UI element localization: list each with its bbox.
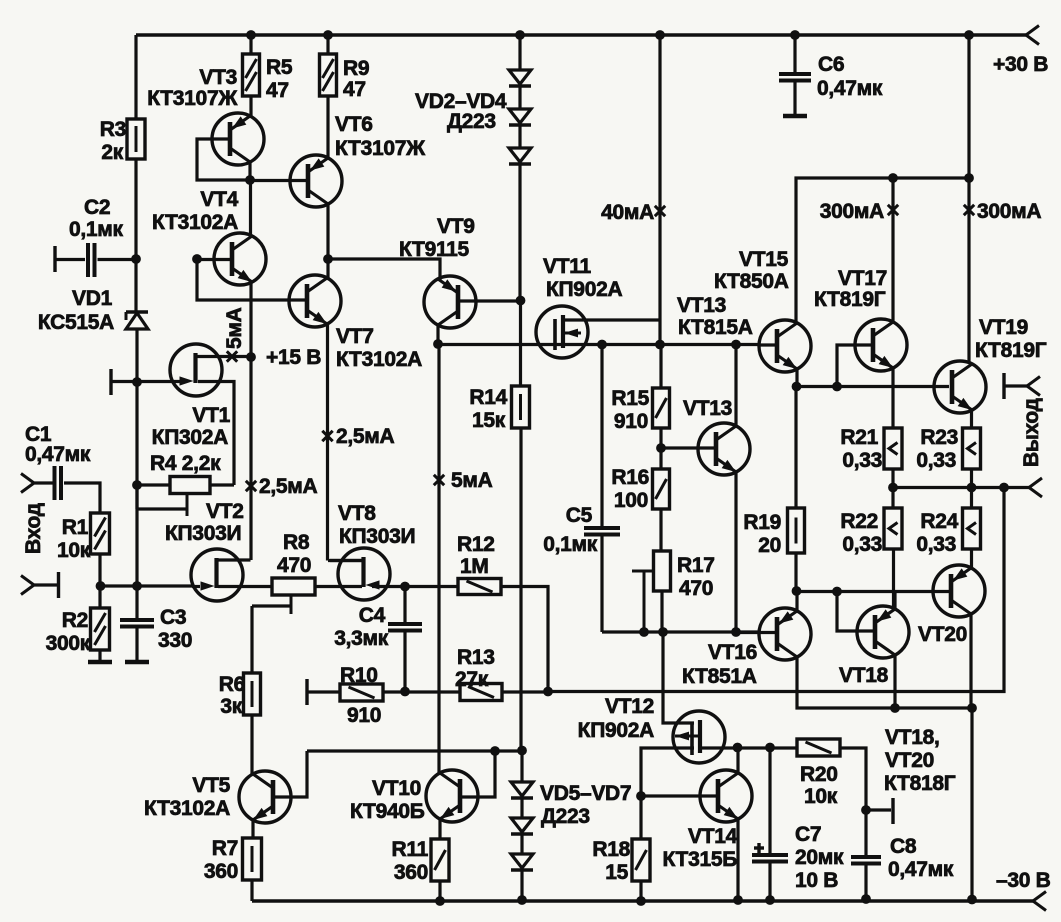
wire VT14 bias corner [641,748,694,796]
svg-text:15к: 15к [472,409,506,432]
wire VT2 source to R8 [218,585,272,588]
junction collectors line / right rail [964,173,974,183]
svg-text:КП902А: КП902А [546,278,622,301]
svg-text:20: 20 [758,534,781,557]
wire VT3 base loop to collector [197,139,250,180]
wire R4 right lead [210,483,234,486]
svg-text:VT8: VT8 [338,502,376,525]
svg-text:VT4: VT4 [200,188,238,211]
wire R6 to VT5 collector [250,715,253,774]
svg-text:300мА: 300мА [977,200,1041,223]
svg-text:VT5: VT5 [192,774,230,797]
diode chain VD2-VD4 wire [518,35,521,70]
junction VD1 / VT1 gate [132,377,142,387]
transistor VT12 (MOSFET) [673,711,725,763]
svg-text:VT13: VT13 [683,397,732,420]
wire VT2 gate segment [192,585,200,588]
svg-text:VT17: VT17 [838,267,887,290]
wire VT8 gate to C4 node [372,585,405,588]
wire VT3 collector node down to VT4 collector [249,180,252,236]
wire VT15 base from line [760,343,777,346]
wire 40mA rail [658,35,661,344]
diode VD2 [509,70,531,84]
capacitor C5 [600,344,603,528]
wire emitter line bottom [796,590,949,593]
ground bar under R2 [88,660,112,665]
junction top bus / +rail right [964,30,974,40]
wire VT17 collector rail [891,178,894,322]
svg-text:3к: 3к [220,695,242,718]
svg-text:КТ315Б: КТ315Б [663,848,738,871]
wire VT1 drain line [197,355,251,358]
svg-text:КТ3107Ж: КТ3107Ж [147,87,238,110]
resistor R20 [797,739,840,756]
resistor R11 [431,839,449,881]
wire VT18 emitter up [893,591,896,609]
resistor R19 [794,386,797,508]
wire VT16 emitter [795,591,798,611]
svg-text:КТ3107Ж: КТ3107Ж [335,137,426,160]
svg-text:R2: R2 [62,609,88,632]
transistor VT3 [212,113,264,165]
svg-text:R4 2,2к: R4 2,2к [150,452,221,475]
current marker 40мА [655,206,665,216]
svg-text:R11: R11 [392,838,429,861]
svg-text:VT6: VT6 [335,113,373,136]
junction VT16 emitter / R19 [792,586,802,596]
wire VT16 collector to bottom rail [797,657,972,708]
svg-text:КТ818Г: КТ818Г [884,772,956,795]
wire C1 to R1 [64,483,100,513]
transistor VT4 [214,233,266,285]
wire bottom -30V bus [252,899,1033,902]
transistor VT14 [700,770,752,822]
wire VT13 emitter down [734,472,737,632]
svg-text:Выход: Выход [1020,398,1043,467]
svg-text:КТ850А: КТ850А [714,270,789,293]
resistor R13 [460,684,502,701]
svg-text:КП302А: КП302А [152,426,228,449]
svg-text:300мА: 300мА [820,200,884,223]
wire R3 top lead [134,35,137,119]
wire VT14 emitter to bus [736,819,739,900]
svg-text:VT11: VT11 [543,255,591,278]
svg-text:КТ940Б: КТ940Б [350,800,425,823]
wire output line [893,486,1029,489]
junction bottom rail / VT18 [890,703,900,713]
wire VT9 collector down [436,324,439,344]
transistor VT10 [426,770,478,822]
svg-text:470: 470 [679,577,713,600]
svg-text:VD5–VD7: VD5–VD7 [540,782,631,805]
junction VD1 rail / R4 [132,480,142,490]
wire VT8 source from R8 [315,585,362,588]
svg-text:R21: R21 [840,426,878,449]
svg-text:VD1: VD1 [72,287,113,310]
junction VT3 collector node [245,175,255,185]
svg-text:R3: R3 [100,118,126,141]
junction bus/VT14 [733,895,743,905]
diode VD7 [511,854,533,868]
junction VT18 bracket [832,587,842,597]
svg-text:R24: R24 [920,510,958,533]
wire VT9 base to VD2-VD4 node [458,299,521,302]
wire VD1 rail down to input line [135,382,138,586]
wire VT10 collector rail from VT9 [437,344,440,774]
junction R17 tap [639,627,649,637]
svg-text:R13: R13 [457,646,495,669]
transistor VT17 [855,319,907,371]
junction C2 / R3-VD1 rail [131,254,141,264]
svg-text:КТ819Г: КТ819Г [975,339,1047,362]
wire to R13 [405,690,460,693]
wire VT3 collector lead [248,162,251,180]
wire bias line VT5/VT10/VD5 [307,749,522,752]
resistor R7 [243,838,262,880]
transistor VT16 [759,608,811,660]
wire VT17 emitter to R21 [891,368,894,428]
svg-text:2,5мА: 2,5мА [259,475,318,498]
resistor R24 [963,508,981,549]
wire R10 to C4 node [383,690,405,693]
wire R9 leads [326,35,329,54]
current marker 300мА right [964,205,974,215]
junction bottom rail / VT20 / -30V drop [967,703,977,713]
svg-text:0,1мк: 0,1мк [543,533,598,556]
junction signal line / C4 / R12 [400,582,410,592]
junction top bus / R9 [323,30,333,40]
wire rail down to -30V bus [970,708,973,900]
svg-text:R23: R23 [920,426,958,449]
junction R23-R24 output line [967,483,977,493]
junction top bus / C6 [790,30,800,40]
junction R15/R16/VT13 base [656,443,666,453]
svg-text:R22: R22 [840,510,878,533]
svg-text:VT7: VT7 [336,325,374,348]
svg-text:Вход: Вход [22,503,45,554]
svg-text:–30 В: –30 В [996,869,1051,892]
terminal output connector lower pin [1029,478,1042,488]
svg-text:КП902А: КП902А [578,719,654,742]
svg-text:1М: 1М [460,555,489,578]
junction bus/R18 [636,896,646,906]
wire main input line [100,584,192,587]
svg-text:R16: R16 [611,466,649,489]
wire C5 corner to VT16 base line [602,630,760,633]
resistor R6 [244,673,261,715]
wire R5 leads [249,35,252,54]
resistor R18 [632,839,650,881]
diode VD6 [511,818,533,832]
junction C4 / feedback line [400,687,410,697]
svg-text:VT9: VT9 [437,215,475,238]
svg-text:Д223: Д223 [541,805,590,828]
svg-text:R20: R20 [800,763,838,786]
junction bias line / VD5 chain / R14 [517,746,527,756]
resistor R21 [884,428,902,469]
svg-text:R10: R10 [340,664,378,687]
svg-text:КТ3102А: КТ3102А [336,348,422,371]
transistor VT15 [759,320,811,372]
junction VT15 emitter [792,382,802,392]
svg-text:R1: R1 [62,516,89,539]
wire to R14 [519,300,522,386]
wire VT18 collector down [893,655,896,708]
transistor VT18 [857,606,909,658]
wire VT17 base bracket [837,345,873,386]
transistor VT19 [934,361,986,413]
svg-text:40мА: 40мА [601,201,654,224]
transistor VT5 [239,771,291,823]
transistor VT6 [290,155,342,207]
wire VT14 collector [736,747,739,774]
wire R4 bottom tap [186,494,189,516]
resistor R23 [963,428,981,469]
svg-text:0,33: 0,33 [916,449,956,472]
junction VT13 collector / line [731,340,741,350]
wire R18 lead [639,796,642,839]
wire VT20 collector down [969,614,972,708]
wire VT19 emitter to R23 [970,410,973,428]
svg-text:+30 В: +30 В [993,53,1048,76]
diode chain VD5-VD7 [520,751,523,782]
transistor VT20 [933,565,985,617]
wire R4 left lead [137,483,170,486]
svg-text:КТ819Г: КТ819Г [814,288,886,311]
wire C2 node to VT4 base [197,258,232,261]
terminal +30 V connector [1026,26,1039,36]
wire VT9 collector line to VT15 base [438,343,760,346]
svg-text:0,47мк: 0,47мк [888,858,954,881]
transistor VT11 (MOSFET) [536,306,588,358]
junction C5 top [597,340,607,350]
current marker 300мА left [888,205,898,215]
current marker 2,5мА on VT7 emitter [322,431,332,441]
svg-text:R17: R17 [677,554,715,577]
wire VT8 drain [330,559,363,562]
capacitor C3 [135,586,138,620]
wire VT14 base lead [641,794,718,797]
wire R1 bottom lead [98,554,101,586]
svg-text:КП303И: КП303И [339,525,415,548]
svg-text:КТ851А: КТ851А [682,665,757,688]
diode VD1 zener [134,259,137,312]
svg-text:КТ3102А: КТ3102А [144,797,230,820]
resistor R4 [170,477,210,494]
wire R13 right lead [502,690,548,693]
svg-text:R7: R7 [212,837,238,860]
wire VT16 base line [736,631,777,634]
svg-text:5мА: 5мА [451,469,493,492]
svg-text:VT20: VT20 [918,623,967,646]
svg-text:0,1мк: 0,1мк [69,218,124,241]
resistor R12 [458,579,501,595]
wire VT2 drain [218,558,251,561]
svg-text:910: 910 [347,704,381,727]
svg-text:VT10: VT10 [372,777,421,800]
junction C2 line / VT7 bracket [192,254,202,264]
junction R1/R2/input line [96,581,106,591]
terminal input connector upper pin [21,474,34,484]
wire feedback line left pin [305,679,308,705]
svg-text:360: 360 [204,860,238,883]
svg-text:R5: R5 [266,56,293,79]
resistor R22 [884,508,902,549]
svg-text:0,47мк: 0,47мк [25,443,91,466]
svg-text:300к: 300к [46,632,91,655]
svg-text:VT16: VT16 [708,641,757,664]
resistor R14 [512,386,530,428]
resistor R9 [320,54,337,96]
svg-text:C6: C6 [818,53,844,76]
svg-text:2к: 2к [101,141,123,164]
junction R15 top [655,340,665,350]
wire R3 bottom lead [134,159,137,259]
wire +30V top bus [136,33,1026,36]
svg-text:C8: C8 [890,835,917,858]
wire R12 leads [405,585,458,588]
junction VT12 source / VT14 collector [733,743,743,753]
svg-text:R14: R14 [469,386,507,409]
junction VT6-VT7 rail / VT9 branch [323,254,333,264]
junction VT4 emitter / VT1 drain (+15V node) [246,352,256,362]
resistor R3 [127,119,145,159]
junction VT9 collector node [433,339,443,349]
wire R8 bottom tap to R6 [290,595,293,614]
junction R21-R22 output line [888,483,898,493]
svg-text:VT14: VT14 [688,825,738,848]
wire VT4 emitter down [249,282,252,560]
svg-text:0,33: 0,33 [842,533,882,556]
terminal input connector lower pin [21,576,34,586]
svg-text:330: 330 [158,629,192,652]
wire VT18 base bracket [837,591,873,631]
junction R12 bracket / feedback line [543,687,553,697]
svg-text:VT13: VT13 [677,294,726,317]
junction VT13 emitter / VT16 base line [731,627,741,637]
junction bus/VD7 [517,895,527,905]
svg-text:27к: 27к [455,668,489,691]
wire VT12 source line [700,746,797,749]
junction VT12 source / C7 [765,743,775,753]
wire VT13 collector up [734,344,737,426]
svg-text:10 В: 10 В [795,869,838,892]
transistor VT9 [424,276,476,328]
transistor VT1 (JFET) [170,344,222,396]
junction top bus / R5 [246,30,256,40]
svg-text:15: 15 [605,861,628,884]
wire R20 right lead [840,748,866,810]
current marker 5мА on VT10 collector [434,475,444,485]
wire VT5 emitter to R7 [251,820,254,838]
svg-text:Д223: Д223 [447,110,496,133]
wire VT10 emitter to R11 [438,819,441,839]
terminal -30 V connector [1033,892,1046,902]
junction R16-R17 rail / VT12 gate rail [658,627,668,637]
wire VT7 base bracket from C2 node [197,259,307,300]
resistor R1 [91,513,110,554]
current marker 5мА on VT1 drain [227,351,237,361]
wire base terminal stub [866,808,891,811]
wire feedback line long run to output [548,487,1004,692]
svg-text:0,33: 0,33 [842,449,882,472]
junction VT14 base node [636,791,646,801]
junction VD chain / VT9 base / R14 [516,296,526,306]
svg-text:470: 470 [277,554,311,577]
capacitor C2 [86,243,90,277]
svg-text:КТ3102А: КТ3102А [152,211,238,234]
junction bias line / VT10 base [490,746,500,756]
svg-text:КТ815А: КТ815А [678,316,753,339]
wire VT11 drain stub [564,318,660,321]
svg-text:VT2: VT2 [206,500,244,523]
resistor R8 [272,578,315,595]
wire R22 to VT18 emitter [892,549,895,608]
wire VT1 source to R4 [198,382,234,486]
junction R20/C8/base stub [861,805,871,815]
svg-text:VT3: VT3 [199,66,237,89]
junction bus/C7 [765,895,775,905]
svg-text:C5: C5 [566,504,593,527]
svg-text:2,5мА: 2,5мА [336,425,395,448]
wire R17 trimmer tap [632,570,655,573]
svg-text:47: 47 [343,78,366,101]
current marker 2,5мА on VT2 drain rail [246,481,256,491]
resistor R10 [340,684,383,701]
svg-text:100: 100 [614,489,648,512]
svg-text:360: 360 [394,861,428,884]
wire R14 bottom long lead to bias line [519,428,522,750]
svg-text:5мА: 5мА [223,307,246,349]
diode VD4 [509,148,531,162]
capacitor C1 [53,466,57,500]
svg-text:R15: R15 [611,387,649,410]
svg-text:VT18: VT18 [839,664,889,687]
wire R7 to bottom bus [250,880,253,901]
wire VT5 base bracket [273,751,307,797]
svg-text:R9: R9 [343,57,369,80]
wire +rail to collectors line [967,35,970,362]
terminal output connector upper pin [1002,373,1005,399]
svg-text:C2: C2 [84,196,110,219]
wire VT7 emitter down to VT8 drain [326,324,329,561]
svg-text:VT19: VT19 [979,316,1028,339]
svg-text:C7: C7 [795,823,821,846]
junction top bus / VD2 chain [515,30,525,40]
diode VD5 [511,782,533,796]
svg-text:C3: C3 [160,606,186,629]
wire C6 lead [793,35,796,74]
svg-text:R19: R19 [743,511,781,534]
svg-text:10к: 10к [57,539,91,562]
junction top bus / 40mA rail [655,30,665,40]
capacitor C7 electrolytic [768,747,771,855]
capacitor C6 [779,72,811,76]
wire emitter line VT15 to VT19 base [796,385,949,388]
svg-text:0,33: 0,33 [916,533,956,556]
junction bus/C8 [861,894,871,904]
svg-text:R6: R6 [219,673,245,696]
diode VD3 [509,109,531,123]
capacitor C4 [403,586,406,624]
wire VT6 collector down to VT7 [326,204,329,278]
wire VT12 gate rail [663,632,694,723]
svg-text:47: 47 [266,79,289,102]
junction bracket / emitter line [832,382,842,392]
wire node to VT6 base [250,179,308,182]
junction bus/R11 [435,896,445,906]
svg-text:3,3мк: 3,3мк [334,627,389,650]
